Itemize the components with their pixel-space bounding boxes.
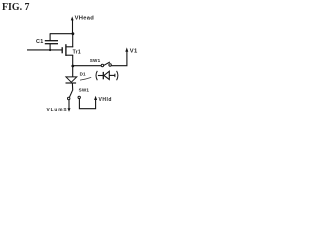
switch SW1 (right branch) xyxy=(101,62,111,67)
label SW2 xyxy=(79,88,90,93)
wire: right throw to VHld terminal xyxy=(79,99,95,109)
figure title FIG. 7 xyxy=(2,2,30,13)
diode D1 (vertical branch) xyxy=(66,66,77,90)
terminal VLumS (arrow down) xyxy=(68,100,71,112)
diode (alternative, in parentheses) xyxy=(96,71,118,80)
capacitor C1 xyxy=(45,34,58,51)
wire: top horizontal from C1 to main vertical xyxy=(50,33,73,35)
switch SW2 (lower, SPDT arm) xyxy=(68,90,81,100)
svg-text:VHld: VHld xyxy=(99,97,112,103)
label VLumS xyxy=(47,107,68,113)
node: junction dot at top wire / VHead line xyxy=(72,32,75,35)
wire: right branch to switch SW1 xyxy=(73,65,101,67)
label SW1 xyxy=(90,58,101,63)
leader line from D1 toward parenthesized diode xyxy=(80,77,91,80)
svg-text:V1: V1 xyxy=(130,48,138,54)
svg-text:C1: C1 xyxy=(36,39,44,45)
svg-text:VLumS: VLumS xyxy=(47,107,68,113)
svg-text:Tr1: Tr1 xyxy=(73,50,81,56)
svg-text:VHead: VHead xyxy=(75,16,95,22)
node: junction dot C1 / gate wire xyxy=(49,49,51,51)
node: junction dot source/branches xyxy=(71,65,74,68)
label VHld xyxy=(99,97,112,103)
power terminal V1 (arrow up) xyxy=(125,47,128,51)
power terminal VHld (arrow up) xyxy=(94,96,97,100)
wire: switch to V1 corner xyxy=(111,51,127,66)
label VHead xyxy=(75,16,95,22)
svg-text:FIG. 7: FIG. 7 xyxy=(2,2,30,13)
svg-text:SW1: SW1 xyxy=(90,58,101,63)
label C1 xyxy=(36,39,44,45)
power terminal VHead (arrow up) xyxy=(71,16,74,33)
label Tr1 xyxy=(73,50,81,56)
svg-text:SW1: SW1 xyxy=(79,88,90,93)
label V1 xyxy=(130,48,138,54)
transistor Tr1 xyxy=(62,34,73,66)
label D1 xyxy=(80,72,86,77)
svg-text:D1: D1 xyxy=(80,72,86,77)
wire: gate wire from left to transistor xyxy=(27,49,62,51)
